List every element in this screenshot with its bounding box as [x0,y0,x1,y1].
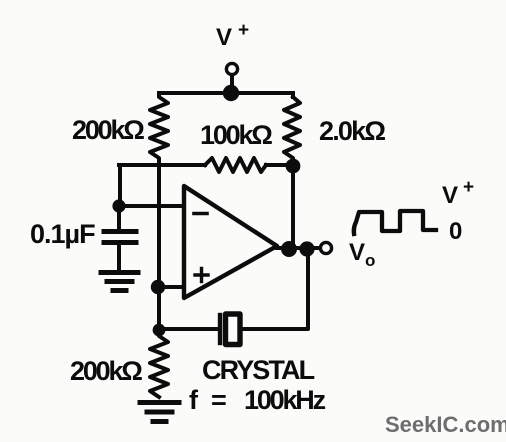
capacitor 0.1uF [104,206,136,270]
wire output down to crystal loop [241,249,308,329]
svg-text:0.1µF: 0.1µF [30,219,95,249]
node B junction 2.0k bottom [286,159,301,174]
node noninverting junction [151,280,165,294]
svg-text:V: V [216,24,232,51]
wire top rail [159,91,293,95]
svg-text:o: o [365,251,375,270]
svg-text:=: = [211,385,227,415]
svg-text:+: + [463,177,474,198]
wire noninverting input [158,285,184,289]
svg-text:SeekIC.com: SeekIC.com [385,412,506,437]
wire vertical x=159 [157,165,161,330]
wire top rail right corner down [291,93,295,97]
wire crystal to node [159,327,218,331]
node output junction 2 [299,241,314,256]
node crystal junction [153,324,166,337]
wire left corner down to cap [118,165,122,206]
node V+ terminal circle [226,63,237,74]
op-amp plus sign [195,269,208,282]
crystal Y1 [220,314,240,345]
node junction top rail [223,85,239,101]
svg-text:V: V [349,239,365,266]
svg-text:+: + [238,20,249,41]
wire V+ terminal to rail [230,75,234,92]
op-amp U1 [184,186,277,298]
svg-text:V: V [442,182,458,209]
wire 100k to node B [266,163,294,167]
svg-text:2.0kΩ: 2.0kΩ [319,116,385,146]
wire inverting input [119,204,184,208]
svg-text:f: f [189,385,199,415]
resistor 200k top-left [150,93,168,165]
wire output [277,246,320,250]
svg-text:100kHz: 100kHz [244,385,326,415]
waveform square wave icon [354,211,436,234]
node output junction 1 [281,241,297,257]
ground bottom resistor [140,403,179,422]
node output terminal circle [320,242,331,253]
resistor 200k bottom [150,330,168,397]
svg-text:0: 0 [449,218,462,245]
wire feedback rail y=165 [119,163,205,167]
ground capacitor [101,273,138,291]
svg-text:100kΩ: 100kΩ [200,120,272,150]
svg-text:CRYSTAL: CRYSTAL [202,355,315,385]
resistor 100k horizontal [205,158,266,172]
wire node B down to output [291,166,295,248]
svg-text:200kΩ: 200kΩ [72,115,144,145]
svg-text:200kΩ: 200kΩ [70,356,142,386]
op-amp minus sign [194,212,207,216]
resistor 2.0k right [284,97,300,166]
node capacitor junction [112,199,125,212]
